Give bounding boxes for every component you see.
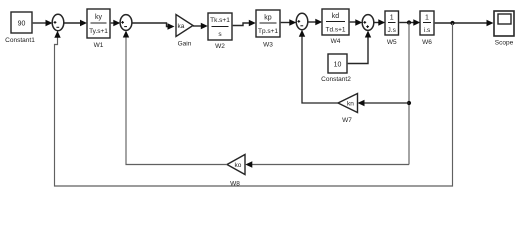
svg-text:Tp.s+1: Tp.s+1 xyxy=(258,28,278,35)
svg-text:Td.s+1: Td.s+1 xyxy=(325,27,345,34)
transfer function W6 (1 / i.s) xyxy=(420,11,434,46)
gain W8 (ko, feedback) xyxy=(227,155,245,188)
wire W3 to Sum3 xyxy=(281,19,297,25)
wire W1 to Sum2 xyxy=(111,20,121,26)
wire outer feedback from W6 output to Sum1 xyxy=(54,23,452,186)
svg-text:ky: ky xyxy=(95,14,103,21)
wire W6 to Scope with junction node xyxy=(435,20,494,26)
wire W8 to Sum2 xyxy=(123,31,227,165)
svg-text:W5: W5 xyxy=(387,39,397,46)
svg-text:kd: kd xyxy=(332,13,340,20)
constant Constant2 (value 10) xyxy=(321,54,351,83)
svg-text:kp: kp xyxy=(264,15,272,22)
scope Scope xyxy=(494,11,514,47)
svg-text:W3: W3 xyxy=(263,42,273,49)
svg-text:ko: ko xyxy=(235,162,242,169)
wire tap from W5 output down (node at W7 level) xyxy=(407,23,411,165)
transfer function W4 (kd / Td.s+1) xyxy=(322,9,349,45)
transfer function W3 (kp / Tp.s+1) xyxy=(256,10,280,49)
svg-text:W6: W6 xyxy=(422,39,432,46)
wire S3 to W4 xyxy=(308,19,323,25)
svg-text:Gain: Gain xyxy=(178,41,192,48)
wire Gain to W2 xyxy=(193,23,208,29)
svg-text:Scope: Scope xyxy=(495,40,514,47)
sum junction S3 xyxy=(296,13,308,29)
wire S4 to W5 xyxy=(374,19,386,25)
wire Constant2 to Sum4 xyxy=(348,31,372,64)
wire Constant1 to Sum1 xyxy=(33,20,53,26)
svg-text:Constant1: Constant1 xyxy=(5,37,35,44)
svg-text:Constant2: Constant2 xyxy=(321,76,351,83)
svg-text:W2: W2 xyxy=(215,43,225,50)
svg-text:W1: W1 xyxy=(94,42,104,49)
wire S2 to Gain (jog down) xyxy=(132,23,175,30)
svg-text:90: 90 xyxy=(18,21,26,28)
svg-text:J.s: J.s xyxy=(388,27,397,34)
sum junction S1 xyxy=(52,14,64,30)
wire W4 to Sum4 xyxy=(350,19,363,25)
svg-text:W7: W7 xyxy=(342,117,352,124)
wire S1 to W1 xyxy=(64,20,87,26)
svg-text:1: 1 xyxy=(425,15,429,22)
sum junction S4 xyxy=(362,15,374,31)
transfer function W1 (ky / Ty.s+1) xyxy=(87,9,110,49)
wire node to W7 input xyxy=(358,100,410,106)
svg-text:W4: W4 xyxy=(331,38,341,45)
svg-text:10: 10 xyxy=(334,62,342,69)
svg-text:kn: kn xyxy=(347,101,354,108)
transfer function W5 (1 / J.s) xyxy=(385,11,399,46)
sum junction S2 xyxy=(120,15,132,31)
svg-text:1: 1 xyxy=(390,15,394,22)
gain Gain (ka) xyxy=(176,15,193,48)
svg-text:ka: ka xyxy=(178,23,185,30)
wire W5 to W6 with junction node xyxy=(399,19,420,25)
gain W7 (kn, feedback) xyxy=(338,94,358,125)
constant Constant1 (value 90) xyxy=(5,12,35,44)
svg-text:Ty.s+1: Ty.s+1 xyxy=(89,28,108,35)
wire W7 to Sum3 xyxy=(299,30,338,103)
svg-text:i.s: i.s xyxy=(424,27,431,34)
svg-text:Tk.s+1: Tk.s+1 xyxy=(210,17,230,24)
transfer function W2 (Tk.s+1 / s) xyxy=(208,13,232,50)
wire W8 input from tap xyxy=(245,161,409,167)
wire W2 to W3 (jog up) xyxy=(233,20,256,26)
